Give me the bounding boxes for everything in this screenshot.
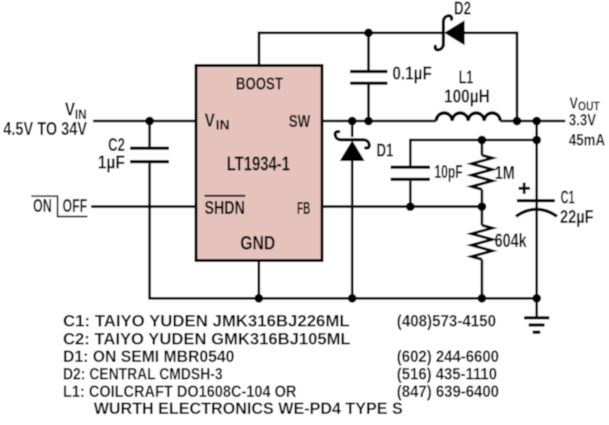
node GND pin/rail	[254, 294, 263, 303]
svg-text:LT1934-1: LT1934-1	[227, 152, 290, 175]
wire D1 cathode stub	[351, 121, 354, 137]
svg-text:ON: ON	[33, 196, 52, 216]
capacitor 10pF	[391, 167, 430, 206]
svg-text:D2: D2	[454, 0, 471, 19]
capacitor C2	[130, 121, 169, 162]
resistor R 1M	[471, 140, 492, 207]
svg-text:D1: ON SEMI MBR0540: D1: ON SEMI MBR0540	[63, 348, 234, 366]
svg-text:604k: 604k	[495, 231, 527, 252]
node divider/VOUT rail	[532, 136, 541, 145]
svg-text:(516) 435-1110: (516) 435-1110	[397, 365, 497, 383]
svg-text:45mA: 45mA	[569, 131, 605, 150]
svg-text:FB: FB	[297, 198, 310, 218]
node D1 anode/rail	[348, 294, 357, 303]
svg-text:1µF: 1µF	[98, 153, 125, 173]
wire VIN input	[93, 120, 196, 123]
wire output rail down	[535, 121, 538, 298]
node boost cap bottom	[364, 117, 373, 126]
svg-text:(408)573-4150: (408)573-4150	[397, 313, 496, 331]
node 1M top	[478, 136, 487, 145]
diode D1 (schottky catch diode)	[335, 132, 369, 161]
diode D2 (schottky, top)	[435, 16, 464, 50]
wire FB	[322, 205, 482, 208]
plus sign C1	[519, 183, 531, 195]
svg-text:D1: D1	[377, 141, 394, 161]
wire divider top (VOUT sense)	[410, 140, 536, 166]
node VIN/C2 junction	[145, 117, 154, 126]
wire D2 to output node	[464, 33, 517, 121]
svg-text:(602) 244-6600: (602) 244-6600	[397, 348, 499, 366]
svg-text:WURTH ELECTRONICS WE-PD4 TYPE: WURTH ELECTRONICS WE-PD4 TYPE S	[94, 400, 403, 418]
svg-text:0.1µF: 0.1µF	[392, 64, 431, 84]
wire GND pin	[257, 261, 260, 299]
svg-text:C1: TAIYO YUDEN JMK316BJ226ML: C1: TAIYO YUDEN JMK316BJ226ML	[63, 313, 350, 331]
resistor R 604k	[471, 207, 492, 299]
wire L1 to VOUT	[500, 120, 565, 123]
svg-text:L1: L1	[459, 68, 474, 88]
svg-text:22µF: 22µF	[560, 207, 594, 227]
node 10pF bottom / FB	[406, 202, 415, 211]
wire C2 bottom / ground rail	[150, 163, 537, 298]
label ON/OFF	[31, 196, 87, 216]
svg-text:(847) 639-6400: (847) 639-6400	[397, 383, 499, 401]
ground symbol	[524, 298, 549, 332]
inductor L1	[436, 113, 500, 121]
node D2/L1	[513, 117, 522, 126]
label VIN input	[65, 100, 87, 123]
svg-text:100µH: 100µH	[444, 87, 490, 107]
svg-text:V: V	[570, 96, 579, 113]
svg-text:1M: 1M	[495, 163, 515, 183]
svg-text:C2: TAIYO YUDEN GMK316BJ105ML: C2: TAIYO YUDEN GMK316BJ105ML	[63, 330, 351, 348]
node rail/ground symbol	[532, 294, 541, 303]
svg-text:OFF: OFF	[63, 196, 88, 216]
node boost cap top	[364, 28, 373, 37]
svg-text:D2: CENTRAL CMDSH-3: D2: CENTRAL CMDSH-3	[63, 365, 223, 383]
svg-text:BOOST: BOOST	[236, 74, 283, 94]
IC U1 LT1934-1 body	[196, 66, 322, 261]
svg-text:SW: SW	[289, 111, 311, 131]
svg-text:V: V	[205, 111, 215, 131]
svg-text:V: V	[65, 100, 75, 120]
wire D1 anode to ground rail	[351, 160, 354, 298]
node D1/SW	[348, 117, 357, 126]
label VOUT	[570, 96, 600, 114]
pin label VIN	[205, 111, 230, 133]
wire SW rail	[322, 120, 436, 123]
node VOUT rail	[532, 117, 541, 126]
svg-text:3.3V: 3.3V	[569, 111, 596, 129]
svg-text:SHDN: SHDN	[205, 198, 245, 218]
node FB divider junction	[478, 202, 487, 211]
svg-text:IN: IN	[216, 117, 230, 133]
capacitor 0.1uF (boost)	[350, 33, 387, 121]
svg-text:L1: COILCRAFT DO1608C-104 OR: L1: COILCRAFT DO1608C-104 OR	[63, 383, 297, 401]
notes text block	[63, 313, 499, 419]
node 604k/rail	[478, 294, 487, 303]
svg-text:GND: GND	[240, 233, 275, 255]
capacitor C1 (polarized 22uF)	[516, 201, 557, 217]
svg-text:10pF: 10pF	[434, 162, 462, 182]
wire SHDN	[91, 205, 196, 208]
wire BOOST to top rail	[259, 33, 443, 66]
pin label SHDN (active low)	[205, 196, 246, 218]
svg-text:4.5V TO 34V: 4.5V TO 34V	[3, 119, 87, 139]
svg-text:C1: C1	[561, 188, 575, 208]
